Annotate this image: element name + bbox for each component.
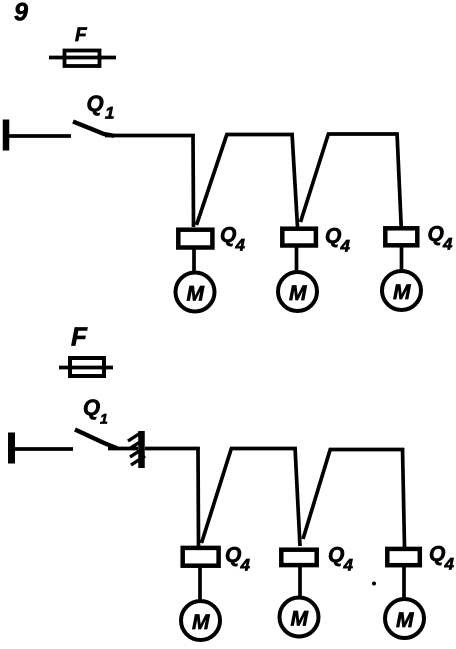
- stray ink dot: [372, 582, 376, 586]
- bus segment 2: [226, 133, 294, 137]
- source terminal bar (bottom circuit): [8, 433, 15, 464]
- branch 2 blade diagonal: [197, 134, 228, 225]
- motor M1 (bottom): [181, 601, 220, 640]
- svg-text:M: M: [396, 609, 414, 632]
- svg-text:4: 4: [240, 556, 251, 575]
- svg-text:M: M: [192, 611, 210, 634]
- wire from hatch to branch 1 corner (bottom): [145, 447, 200, 451]
- motor M2 (bottom): [280, 598, 319, 637]
- branch 3 drop wire: [397, 133, 401, 227]
- svg-text:1: 1: [105, 104, 114, 123]
- branch 2 drop wire: [292, 133, 298, 227]
- svg-text:1: 1: [100, 411, 108, 427]
- svg-text:Q: Q: [83, 395, 100, 420]
- bus segment 3: [327, 132, 399, 136]
- wire box1 to motor 1 (top): [192, 248, 196, 273]
- motor M3 (top): [382, 271, 421, 310]
- fuse F (bottom): [70, 358, 104, 376]
- source terminal bar (top circuit): [3, 120, 10, 151]
- hatch stroke 1: [128, 432, 142, 441]
- svg-text:4: 4: [442, 235, 453, 254]
- wire through fuse F (bottom): [59, 366, 113, 370]
- branch 3 blade diagonal: [301, 134, 329, 223]
- branch 1 drop wire: [191, 134, 195, 227]
- svg-text:Q: Q: [225, 544, 241, 567]
- svg-text:M: M: [187, 283, 205, 306]
- svg-text:F: F: [75, 25, 88, 46]
- wire from terminal to switch Q1: [9, 134, 71, 138]
- svg-text:Q: Q: [87, 91, 104, 116]
- svg-text:Q: Q: [428, 223, 444, 246]
- motor M2 (top): [278, 272, 317, 311]
- bus segment 2 (bottom): [230, 447, 297, 451]
- svg-text:9: 9: [14, 0, 28, 27]
- wire box3 to motor 3 (bottom): [402, 566, 406, 599]
- contactor Q4 box 1 (top): [178, 230, 212, 248]
- switch Q1 blade (bottom): [75, 430, 117, 449]
- svg-text:4: 4: [340, 237, 351, 256]
- hatched wall-pass marker bar: [138, 431, 145, 468]
- branch 3 drop wire (bottom): [403, 448, 405, 547]
- branch 1 drop wire (bottom): [196, 447, 200, 546]
- contactor Q4 box 2 (top): [282, 229, 316, 246]
- svg-text:4: 4: [235, 236, 246, 255]
- svg-text:Q: Q: [220, 224, 236, 247]
- hatch stroke 4: [131, 456, 145, 465]
- wire through fuse F: [49, 56, 116, 60]
- motor M3 (bottom): [385, 599, 424, 638]
- switch Q1 blade: [73, 122, 114, 136]
- fuse F: [65, 51, 100, 67]
- wire box2 to motor 2 (bottom): [298, 566, 302, 598]
- contactor Q4 box 3 (bottom): [387, 549, 420, 565]
- bus segment 4 (bottom): [329, 448, 404, 452]
- branch 2 blade diagonal (bottom): [202, 448, 232, 543]
- wire box3 to motor 3 (top): [400, 247, 404, 271]
- wire from Q1 to hatch marker: [108, 447, 138, 451]
- contactor Q4 box 1 (bottom): [183, 548, 219, 566]
- svg-text:M: M: [393, 281, 411, 304]
- svg-text:F: F: [71, 322, 88, 352]
- motor M1 (top): [176, 273, 215, 312]
- wire from Q1 to branch 1 corner: [105, 134, 195, 138]
- svg-text:Q: Q: [429, 543, 445, 566]
- svg-text:M: M: [289, 282, 307, 305]
- branch 3 blade diagonal (bottom): [303, 449, 331, 540]
- svg-text:Q: Q: [325, 225, 341, 248]
- contactor Q4 box 2 (bottom): [281, 550, 316, 565]
- svg-text:4: 4: [444, 555, 455, 574]
- wire box1 to motor 1 (bottom): [198, 567, 202, 602]
- hatch stroke 3: [130, 448, 144, 457]
- wire from terminal to switch Q1 (bottom): [15, 447, 73, 451]
- svg-text:4: 4: [343, 556, 354, 575]
- contactor Q4 box 3 (top): [385, 228, 417, 245]
- svg-text:M: M: [291, 608, 309, 631]
- svg-text:Q: Q: [328, 544, 344, 567]
- wire box2 to motor 2 (top): [295, 247, 299, 273]
- hatch stroke 2: [129, 440, 143, 449]
- branch 2 drop wire (bottom): [295, 447, 300, 546]
